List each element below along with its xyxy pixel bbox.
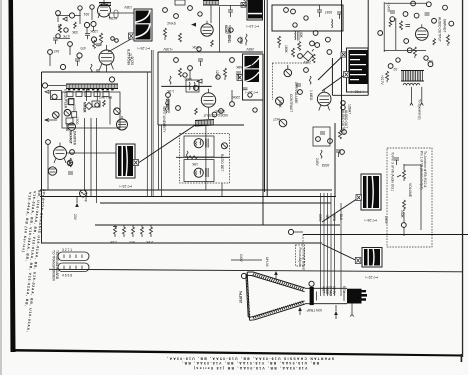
node 103: [90, 5, 94, 9]
alt volume pot: [397, 164, 406, 181]
resistor R51: [186, 151, 188, 159]
svg-text:RATIO DET: RATIO DET: [220, 154, 224, 171]
svg-text:180K: 180K: [284, 45, 288, 54]
wire: yoke tap diagonal to sound takeoff: [139, 125, 196, 163]
svg-text:.047: .047: [53, 49, 60, 53]
CRT terminal node: [241, 273, 246, 278]
osc coil tube: [68, 123, 76, 131]
wire: AGC bus: [95, 224, 340, 226]
page frame bottom rule: [11, 349, 462, 357]
wire: audio section box bottom: [332, 94, 368, 96]
svg-text:240V: 240V: [239, 254, 243, 263]
node 92: [68, 42, 73, 47]
wire sound IF interconnect: [176, 156, 230, 158]
resistor R64: [400, 21, 403, 30]
tube V1 label plate: [114, 10, 118, 18]
wire: IF section box left edge: [41, 72, 43, 243]
capacitor C9: [75, 59, 80, 66]
wire IF plate lead: [210, 5, 212, 23]
dashed hv riser: [302, 235, 304, 249]
wire yoke tap lead: [108, 39, 131, 52]
tube V5 video output 12BW7: [201, 89, 215, 107]
resistor R72: [312, 54, 315, 63]
vert output coupling box: [313, 127, 330, 146]
CRT grid line: [317, 291, 345, 301]
node 115: [197, 47, 201, 51]
video section box top: [158, 51, 263, 53]
tuner comb pads: [68, 89, 114, 91]
node 23 terminal: [230, 58, 235, 63]
svg-text:68K: 68K: [235, 65, 242, 69]
capacitor C61: [390, 11, 395, 13]
coil L10: [194, 139, 208, 148]
node 33 terminal: [69, 13, 80, 18]
wire: crt harness lead 2: [323, 193, 325, 296]
svg-text:TO TRANSFORMER: TO TRANSFORMER: [52, 250, 56, 281]
node 40 terminal: [109, 77, 114, 82]
svg-text:RED: RED: [332, 214, 336, 222]
speaker A tap square: [356, 195, 362, 201]
crystal diamond: [85, 102, 92, 109]
CRT base socket: [347, 289, 367, 304]
svg-text:AUDIO OUT: AUDIO OUT: [344, 110, 348, 128]
CRT ion trap band: [310, 287, 314, 305]
wire: heater bus: [100, 202, 331, 204]
speaker B pictorial: [364, 249, 380, 266]
audio node 66: [449, 21, 454, 26]
wire damper to focus coil: [48, 145, 116, 191]
speaker A pictorial box: [361, 174, 381, 210]
wire focus line: [231, 259, 262, 261]
node 112: [304, 16, 308, 20]
tube V9 audio output 6AU4GT: [416, 24, 429, 40]
tuner detail parts: [66, 89, 110, 125]
node 101: [64, 28, 68, 32]
svg-text:+217V: +217V: [380, 75, 384, 85]
node 36b pin pair: [111, 37, 119, 43]
svg-text:⊢7-21⊣: ⊢7-21⊣: [352, 90, 364, 94]
tuner osc tube V3: [117, 116, 128, 130]
svg-text:220K: 220K: [231, 95, 240, 99]
svg-text:SPARTAN CHASSIS U18-03AA, BB,: SPARTAN CHASSIS U18-03AA, BB, U18-05AA, …: [166, 356, 334, 360]
CRT second anode node: [309, 281, 314, 286]
node 20 terminal: [188, 6, 193, 11]
audio node 71: [428, 62, 433, 67]
resistor R34: [141, 225, 144, 237]
arrow video bias: [197, 79, 202, 83]
wire: sync section divider left: [264, 0, 266, 192]
wire fuse drop: [77, 190, 83, 203]
arrow bell ground: [274, 271, 278, 275]
wire: tuner section divider c: [152, 50, 154, 197]
resistor R41: [164, 28, 167, 40]
arrow to 20V point: [75, 203, 79, 207]
node 114: [424, 56, 428, 60]
node 24 terminal: [194, 86, 199, 91]
wire video interconnects: [168, 70, 232, 110]
svg-text:BLK: BLK: [339, 214, 343, 221]
svg-text:36DR: 36DR: [325, 286, 329, 295]
tuner comb contacts: [66, 84, 118, 89]
capacitor C46: [243, 88, 248, 90]
node 25 terminal: [212, 112, 217, 117]
V6 pin terminals: [341, 101, 345, 110]
resistor R48: [211, 40, 214, 47]
svg-text:4.7K: 4.7K: [62, 34, 70, 38]
svg-text:RF UNIT: RF UNIT: [99, 95, 112, 99]
page frame right rule: [462, 0, 463, 357]
capacitor C41: [228, 5, 233, 17]
node 21 terminal: [174, 58, 179, 63]
adjust screw damper: [67, 160, 72, 165]
focus coil pictorial box: [116, 144, 135, 178]
node 97: [304, 68, 309, 73]
tuner subchassis box: [62, 92, 120, 128]
audio node 61: [426, 2, 431, 7]
arrow B+ feed: [63, 17, 67, 21]
wire: audio grid vertical: [395, 18, 397, 50]
horiz output transformer pictorial: [245, 56, 260, 82]
svg-text:CONTRAST: CONTRAST: [289, 94, 293, 112]
resistor R15: [90, 64, 92, 72]
wire: tuner section divider b: [151, 50, 153, 197]
wire video bias line: [161, 85, 211, 87]
svg-text:33K: 33K: [71, 30, 78, 34]
ratio det adjust: [221, 143, 227, 149]
focus coil pictorial: [118, 146, 133, 176]
wire: horiz drop c: [96, 118, 98, 203]
svg-text:135V: 135V: [123, 5, 132, 9]
svg-text:6CM7: 6CM7: [224, 25, 228, 34]
audio node 70: [407, 48, 412, 53]
resistor R63: [279, 119, 287, 127]
speaker A pictorial: [363, 176, 379, 208]
wire: yoke feed: [111, 12, 134, 14]
node 41 terminal: [70, 150, 75, 155]
wire: audio bottom rail: [384, 50, 426, 52]
resistor R50: [195, 108, 198, 115]
svg-text:245V: 245V: [315, 158, 319, 167]
resistor R61 180K: [278, 36, 281, 48]
svg-text:.0047: .0047: [325, 10, 333, 14]
svg-text:120V: 120V: [215, 70, 219, 79]
svg-text:MIXER: MIXER: [83, 102, 87, 113]
capacitor C11: [96, 70, 100, 72]
wire: crt harness lead 4: [330, 193, 332, 296]
node 54 terminal: [310, 41, 315, 46]
height pot: [276, 97, 284, 105]
node 51 terminal: [284, 8, 289, 13]
svg-text:265V: 265V: [302, 60, 311, 64]
svg-text:.02: .02: [393, 67, 398, 71]
svg-text:330K: 330K: [400, 210, 404, 219]
svg-text:DAMPER: DAMPER: [73, 131, 77, 146]
capacitor C70: [320, 132, 325, 134]
svg-text:HGT: HGT: [273, 117, 280, 121]
svg-text:6.3V: 6.3V: [342, 286, 346, 294]
horiz output transformer box: [243, 54, 264, 100]
svg-text:BB, U18-04AA, BB, V18-01AA, BB: BB, U18-04AA, BB, V18-01AA, BB, V18-03AA…: [181, 361, 319, 365]
sound IF can upper: [184, 136, 214, 157]
wire: crt harness lead 6: [340, 203, 342, 296]
svg-text:1000: 1000: [72, 105, 76, 113]
capacitor C52: [337, 12, 342, 19]
arrow neck ground: [298, 307, 302, 311]
wire: audio section vertical: [367, 0, 369, 95]
alt node 83: [401, 223, 406, 228]
svg-text:6AW4GT: 6AW4GT: [443, 19, 447, 32]
horiz transformer tap square: [237, 75, 243, 81]
arrow base lead: [334, 311, 338, 315]
resistor R42: [179, 33, 182, 42]
capacitor C44: [198, 59, 203, 66]
svg-text:100K: 100K: [278, 100, 282, 109]
deflection yoke pictorial box: [134, 9, 152, 41]
node 94: [176, 106, 181, 111]
svg-text:Terminal Board: Terminal Board: [302, 248, 306, 270]
tube V2 horiz output 6BQ6: [99, 45, 114, 70]
svg-text:6CB6: 6CB6: [109, 16, 117, 20]
svg-text:⊢7-23⊣: ⊢7-23⊣: [120, 184, 132, 188]
wire: video box drop a: [158, 125, 160, 190]
resistor R62: [292, 48, 295, 57]
node 96: [298, 54, 303, 59]
wire: tuner section divider a: [146, 72, 148, 197]
wire: top-left rail b: [80, 9, 92, 24]
node 80 terminal: [316, 137, 321, 142]
wire sound IF vertical: [205, 126, 207, 183]
coil L11: [194, 168, 208, 177]
wire video plate: [208, 107, 210, 119]
capacitor C64: [406, 25, 411, 27]
svg-text:217V: 217V: [128, 53, 132, 62]
alt resistor R80: [403, 200, 406, 211]
capacitor C22: [68, 172, 73, 174]
node 91: [48, 50, 53, 55]
wire crt bottom stub: [335, 305, 337, 319]
svg-text:VOLUME: VOLUME: [408, 183, 412, 198]
capacitor C51: [317, 5, 322, 17]
svg-text:265V: 265V: [245, 47, 254, 51]
vert osc pot (tilted): [303, 47, 316, 61]
svg-text:12.6V: 12.6V: [332, 286, 336, 295]
resistor R68: [309, 76, 311, 84]
tube V4 sync separator: [201, 21, 213, 36]
svg-text:1/4 Amp: 1/4 Amp: [84, 190, 88, 202]
svg-text:.001: .001: [83, 12, 90, 16]
peaking coil L12: [332, 19, 333, 28]
wire V2 cathode to tuner: [48, 65, 107, 86]
padder box 1500: [72, 112, 79, 125]
wire: long ground bus to CRT: [49, 269, 462, 272]
svg-text:120K: 120K: [89, 29, 98, 33]
alt capacitor C80: [394, 158, 399, 165]
yoke tap square: [129, 33, 135, 39]
ratio det transformer pictorial box: [347, 48, 369, 92]
audio node 72: [388, 64, 393, 69]
wire: top-left rail a: [56, 15, 69, 17]
node 26 terminal: [219, 109, 224, 114]
transformer terminal strip 1: [58, 248, 89, 261]
node 104: [198, 12, 202, 16]
resistor R47: [245, 34, 247, 45]
svg-text:SYNC: SYNC: [166, 21, 176, 25]
wire plate lead V1: [87, 27, 94, 33]
svg-text:VERT LINEARITY: VERT LINEARITY: [162, 106, 166, 133]
sound takeoff comb: [195, 120, 214, 127]
resistor R32: [123, 225, 126, 237]
svg-text:⊢7-19⊣: ⊢7-19⊣: [247, 24, 259, 28]
focus coil tap square: [133, 160, 139, 166]
rf choke above V1: [99, 3, 111, 6]
ratio det transformer pictorial: [349, 50, 369, 84]
vert linearity control: [165, 99, 169, 113]
svg-text:UH-04: UH-04: [265, 257, 269, 267]
node 98: [298, 90, 303, 95]
trimmer screw right: [114, 108, 121, 115]
node 108: [216, 75, 220, 79]
wire: B+ bus middle: [40, 196, 336, 198]
resistor R69: [298, 41, 301, 50]
resistor R71: [320, 150, 322, 158]
svg-text:To Speaker(s): To Speaker(s): [418, 99, 422, 120]
resistor R70: [339, 130, 342, 139]
resistor R52: [189, 156, 198, 159]
video section box left: [157, 52, 159, 125]
audio node 64: [432, 18, 437, 23]
resistor R45: [224, 68, 227, 80]
fine tuning screw: [53, 112, 60, 119]
page left edge shadow: [0, 0, 2, 375]
node 39 terminal: [42, 83, 47, 88]
wire: top-left rail c: [58, 37, 70, 39]
wire: crt harness lead 5: [334, 197, 336, 297]
antenna arrows: [45, 90, 57, 121]
node 35 terminal: [91, 21, 96, 26]
focus board caption: [298, 248, 306, 270]
node 52 terminal: [291, 9, 296, 14]
svg-text:To Pin 3 of V8 (Audio Out.): To Pin 3 of V8 (Audio Out.): [391, 152, 395, 191]
svg-text:10K: 10K: [191, 162, 198, 166]
svg-text:V18-03AA, BB, V18-04AA, BB (18: V18-03AA, BB, V18-04AA, BB (18 Series): [193, 366, 308, 370]
resistor R65: [413, 47, 416, 58]
node 53 terminal: [313, 31, 318, 36]
resistor R31: [113, 225, 117, 237]
transformer tap square: [344, 72, 350, 78]
node 105: [229, 28, 233, 32]
svg-text:TERMINAL BOARD: TERMINAL BOARD: [55, 250, 59, 280]
wire: sync takeoff diagonal: [322, 75, 345, 91]
wire grid lead V2: [50, 15, 70, 66]
wire: video box drop b: [161, 125, 163, 197]
wire: IF box bottom edge: [41, 242, 322, 244]
capacitor C62: [425, 13, 430, 15]
audio node 68: [378, 31, 383, 36]
wire: audio section box left: [331, 58, 333, 95]
audio node 69: [404, 39, 409, 44]
svg-text:.0033: .0033: [322, 163, 330, 167]
dashed link vert: [272, 63, 308, 100]
tube V1 video amp: [98, 0, 111, 18]
node 18 terminal: [163, 8, 168, 13]
node hv terminal: [288, 229, 303, 234]
horiz osc transformer box: [247, 0, 263, 20]
svg-text:1.0K: 1.0K: [166, 89, 174, 93]
node 95: [230, 102, 235, 107]
focus adjust board dashed: [296, 245, 305, 266]
svg-text:AUDIO OUTPUT: AUDIO OUTPUT: [438, 17, 442, 42]
svg-text:Pin 1 of V8 (Audio Output): Pin 1 of V8 (Audio Output): [420, 151, 424, 190]
audio node 63: [414, 13, 419, 18]
fuse M1: [80, 190, 87, 197]
node 113: [396, 58, 400, 62]
vert osc box: [272, 5, 343, 31]
deflection yoke pictorial: [136, 11, 151, 40]
svg-text:265V: 265V: [384, 216, 388, 225]
svg-text:1 MEG: 1 MEG: [309, 90, 313, 101]
horiz osc transformer core: [241, 0, 262, 19]
svg-text:⊢7-22⊣: ⊢7-22⊣: [366, 275, 378, 279]
speaker B pictorial box: [362, 248, 382, 268]
tube V6 vert output 12BH7: [317, 89, 331, 111]
svg-text:100K: 100K: [299, 30, 303, 39]
node 102: [78, 6, 82, 10]
speaker lead 1: [410, 87, 413, 106]
audio node 65: [443, 5, 448, 10]
wire: B2 top rail: [219, 5, 247, 7]
node 34 terminal: [84, 22, 89, 27]
resistor R73: [389, 20, 392, 27]
svg-text:470: 470: [80, 46, 86, 50]
node 107: [183, 73, 187, 77]
resistor R46: [169, 76, 171, 84]
node 93: [166, 93, 171, 98]
resistor R16: [74, 22, 77, 29]
resistor R21: [69, 158, 72, 167]
wire bell ground stub: [275, 275, 277, 280]
svg-text:1.2K: 1.2K: [109, 240, 117, 244]
wire dashed box stub down: [206, 183, 222, 197]
wire: speaker tap diagonal lower: [322, 244, 357, 261]
wire: audio b+ vertical: [383, 2, 385, 52]
IF input box: [175, 0, 185, 5]
audio node 60: [411, 1, 416, 6]
svg-text:470: 470: [129, 240, 135, 244]
video section box bottom: [158, 124, 244, 126]
alternate volume dashed box: [387, 148, 432, 247]
CRT lead labels: [322, 286, 347, 296]
wire: B+ bus upper: [40, 189, 332, 191]
wire: detector output vertical: [262, 54, 264, 225]
node 57 terminal: [326, 37, 331, 42]
svg-text:+140V: +140V: [387, 3, 391, 13]
wire: sync section divider right: [266, 0, 268, 197]
wire: crt harness lead 3: [327, 193, 329, 296]
terminal strip caption: [52, 250, 60, 281]
node 111: [293, 23, 297, 27]
svg-text:1500: 1500: [75, 117, 79, 125]
IF transformer comb top: [203, 1, 219, 6]
wire: crt harness lead 1: [320, 193, 322, 296]
svg-text:6AX4GT: 6AX4GT: [69, 131, 73, 144]
svg-text:YEL: YEL: [325, 214, 329, 220]
node 82 terminal: [340, 150, 345, 155]
tube V8 regulator: [48, 167, 56, 175]
svg-text:C 7AO: C 7AO: [329, 286, 333, 296]
node 22 terminal: [188, 66, 193, 71]
resistor R13: [93, 40, 96, 48]
svg-text:560: 560: [427, 59, 433, 63]
